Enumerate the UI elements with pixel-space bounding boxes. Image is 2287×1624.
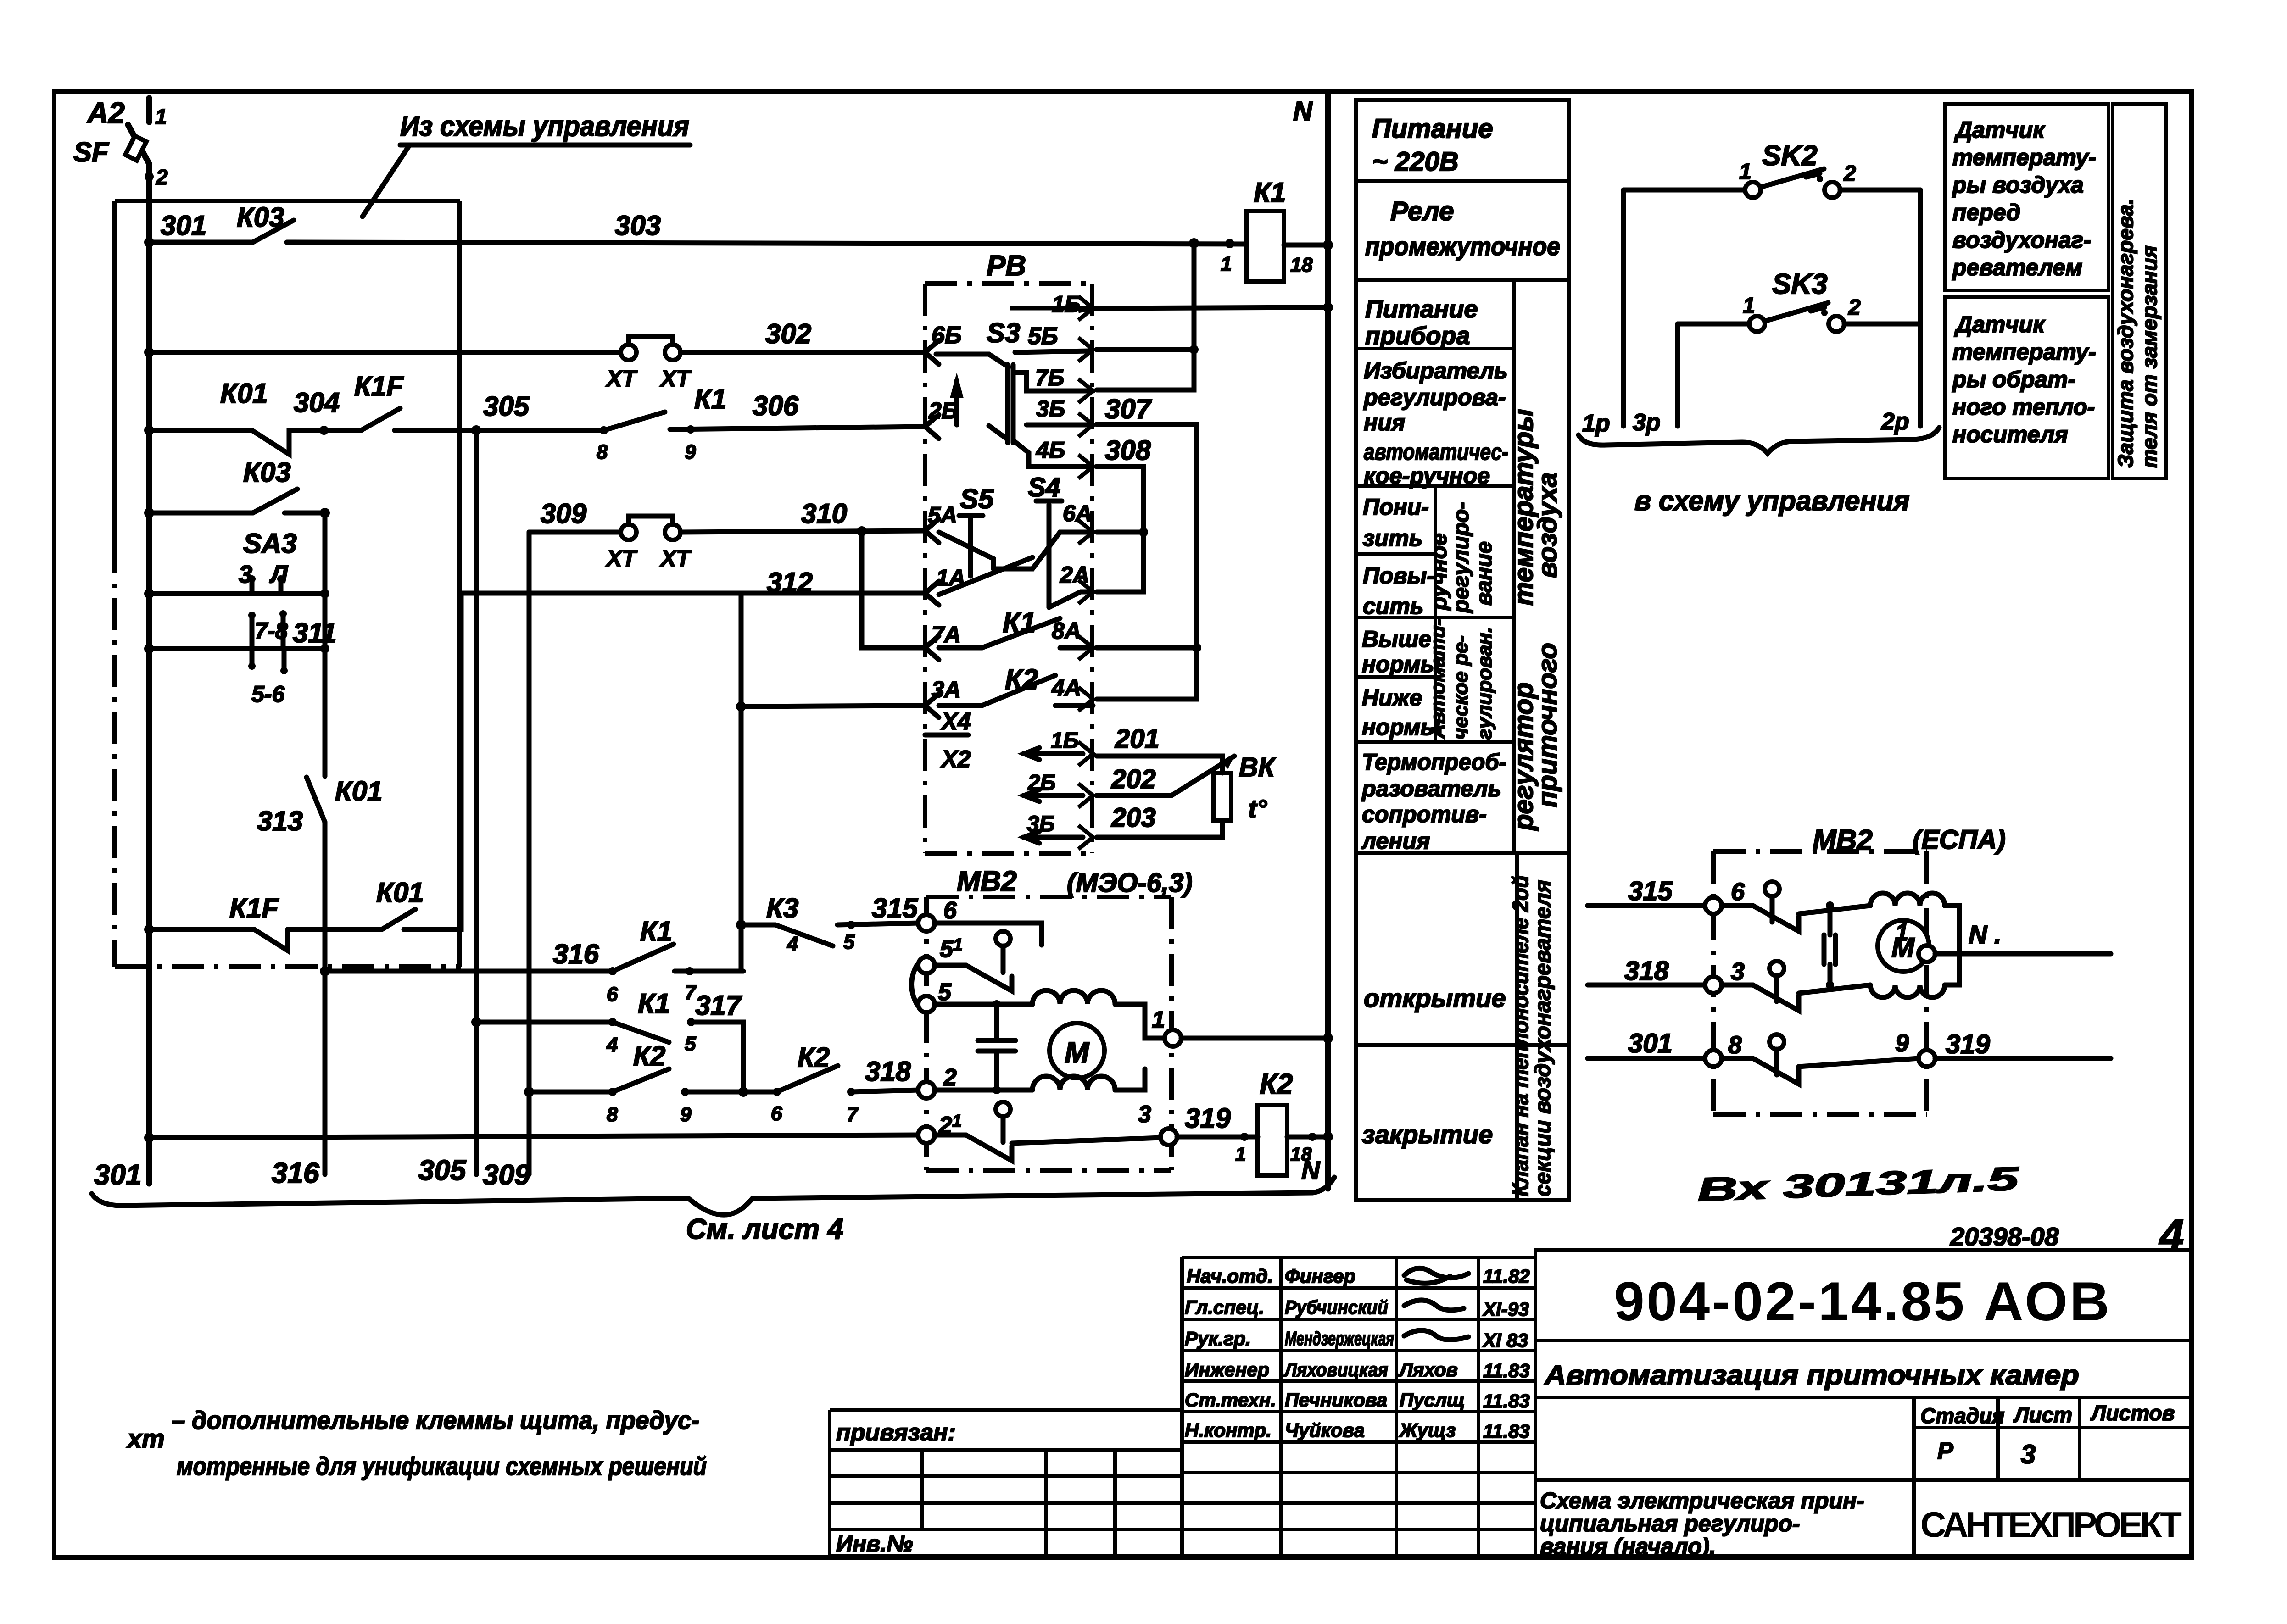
svg-text:2А: 2А [1060, 562, 1089, 588]
svg-text:1Б: 1Б [1051, 729, 1079, 753]
PB right edge pin arrows [1010, 296, 1093, 849]
svg-text:закрытие: закрытие [1362, 1120, 1493, 1149]
svg-text:Нач.отд.: Нач.отд. [1187, 1265, 1273, 1287]
svg-text:316: 316 [272, 1157, 319, 1189]
motor M (ЕСПА) [1878, 920, 1929, 972]
svg-text:3Б: 3Б [1036, 396, 1065, 422]
svg-text:вания (начало).: вания (начало). [1540, 1534, 1716, 1559]
svg-text:302: 302 [765, 318, 811, 349]
svg-text:Клапан на теплоносителе 2ой: Клапан на теплоносителе 2ой [1509, 875, 1533, 1196]
svg-text:К1F: К1F [229, 893, 279, 923]
svg-text:2: 2 [156, 165, 168, 189]
svg-text:2Б: 2Б [1027, 771, 1056, 795]
svg-text:1: 1 [1152, 1007, 1165, 1033]
svg-text:305: 305 [418, 1155, 467, 1186]
svg-text:XI 83: XI 83 [1482, 1329, 1528, 1351]
svg-text:310: 310 [801, 498, 847, 529]
svg-text:5: 5 [843, 931, 855, 953]
wire 302 with terminals XT-XT [144, 318, 925, 391]
svg-text:Лист: Лист [2013, 1403, 2072, 1427]
svg-text:3: 3 [2021, 1440, 2036, 1469]
svg-text:SA3: SA3 [243, 528, 297, 559]
svg-text:315: 315 [1628, 876, 1673, 906]
sensor description boxes (Датчик температуры...) [1945, 104, 2166, 478]
limit switch contact at 2' with plunger [996, 1102, 1010, 1117]
svg-text:8: 8 [1728, 1031, 1742, 1059]
svg-text:Датчик: Датчик [1954, 311, 2046, 337]
svg-text:312: 312 [767, 567, 813, 598]
svg-text:3: 3 [1731, 958, 1745, 985]
wire from terminal 6 [935, 923, 1042, 945]
svg-text:ры обрат-: ры обрат- [1952, 367, 2075, 392]
svg-text:304: 304 [294, 387, 340, 418]
svg-text:3Б: 3Б [1027, 812, 1055, 836]
svg-text:зить: зить [1363, 525, 1422, 551]
svg-text:Избиратель: Избиратель [1364, 358, 1508, 384]
svg-text:5Б: 5Б [1028, 323, 1058, 350]
svg-text:1р: 1р [1582, 410, 1610, 437]
svg-text:привязан:: привязан: [836, 1419, 956, 1446]
svg-text:приточного: приточного [1533, 643, 1562, 807]
selector switch SA3 (positions 3,Л; contacts 7-8, 5-6, node 311) [144, 528, 337, 707]
contact K03 row to rail 316 [144, 457, 330, 653]
svg-text:Выше: Выше [1362, 626, 1431, 652]
svg-text:ХТ: ХТ [659, 366, 692, 391]
svg-text:ХТ: ХТ [605, 545, 638, 571]
svg-text:1: 1 [1895, 919, 1908, 946]
connector X2 pins 1Б,2Б,3Б [1023, 754, 1083, 837]
svg-text:1: 1 [1739, 160, 1752, 184]
svg-text:311: 311 [293, 617, 337, 648]
svg-text:S3: S3 [987, 317, 1020, 348]
wires 307, 308 and links PB to K1 coil and N [1093, 243, 1333, 699]
svg-text:Схема электрическая прин-: Схема электрическая прин- [1540, 1488, 1864, 1513]
svg-text:К3: К3 [766, 893, 798, 923]
svg-text:303: 303 [615, 210, 661, 241]
svg-text:хт: хт [126, 1424, 165, 1453]
circuit breaker SF (panel A2) [73, 96, 168, 189]
svg-text:К01: К01 [220, 378, 268, 409]
svg-text:вание: вание [1472, 541, 1496, 606]
svg-text:К03: К03 [243, 457, 291, 488]
svg-text:1: 1 [1235, 1143, 1246, 1165]
svg-text:Датчик: Датчик [1954, 117, 2046, 143]
svg-text:7: 7 [847, 1103, 859, 1126]
svg-text:XI-93: XI-93 [1482, 1298, 1529, 1320]
svg-text:кое-ручное: кое-ручное [1364, 463, 1490, 489]
svg-text:Автоматизация приточных камер: Автоматизация приточных камер [1544, 1360, 2079, 1390]
contact K1F and contact K01 row [144, 593, 461, 951]
terminal 1 wire to N [1165, 1030, 1181, 1046]
svg-text:Пони-: Пони- [1363, 494, 1429, 520]
svg-text:мотренные для унификации схемн: мотренные для унификации схемных решений [177, 1452, 707, 1480]
svg-text:8: 8 [597, 441, 608, 463]
svg-text:6: 6 [771, 1102, 782, 1125]
svg-text:сить: сить [1363, 593, 1424, 619]
svg-text:202: 202 [1111, 764, 1156, 794]
wire rail 316 vertical [323, 822, 328, 1174]
svg-text:ципиальная регулиро-: ципиальная регулиро- [1540, 1511, 1800, 1536]
svg-text:309: 309 [483, 1159, 530, 1191]
svg-text:2р: 2р [1881, 408, 1909, 435]
svg-text:Листов: Листов [2090, 1401, 2175, 1425]
valve actuator MB2 (ЕСПА) box with wires 315,318,301,319,N [1588, 824, 2111, 1115]
svg-text:4А: 4А [1051, 675, 1081, 701]
svg-text:2: 2 [1843, 161, 1856, 186]
svg-text:(МЭО-6,3): (МЭО-6,3) [1067, 868, 1193, 898]
svg-text:ческое ре-: ческое ре- [1450, 635, 1472, 740]
motor winding lower coil [935, 1088, 1032, 1093]
svg-text:309: 309 [541, 498, 587, 529]
svg-text:К2: К2 [798, 1042, 830, 1073]
svg-text:К01: К01 [376, 877, 424, 908]
svg-text:Реле: Реле [1390, 196, 1454, 226]
terminal 1 wire N [1919, 945, 1935, 962]
wire bottom row 301 with rails 316,305,309 to sheet 4 [94, 1133, 919, 1191]
relay coil K2 rect [1258, 1105, 1287, 1175]
svg-text:воздуха: воздуха [1533, 473, 1562, 578]
svg-text:регулиро-: регулиро- [1449, 502, 1473, 614]
svg-text:S5: S5 [960, 484, 994, 514]
svg-text:11.82: 11.82 [1483, 1265, 1530, 1287]
svg-text:автоматичес-: автоматичес- [1364, 439, 1508, 465]
svg-text:18: 18 [1290, 254, 1313, 276]
svg-text:Гл.спец.: Гл.спец. [1185, 1296, 1264, 1318]
brace "в схему управления" [1579, 428, 1939, 453]
svg-text:ния: ния [1364, 410, 1405, 435]
svg-text:313: 313 [257, 806, 303, 836]
svg-text:К1: К1 [1254, 177, 1286, 208]
contact K2 (8-9), contact K2 (6-7), wire 318 [524, 1040, 919, 1126]
svg-text:2: 2 [943, 1064, 957, 1091]
svg-text:Мендзержецкая: Мендзержецкая [1285, 1328, 1394, 1349]
svg-text:301: 301 [1628, 1029, 1673, 1058]
svg-text:t°: t° [1248, 794, 1267, 823]
svg-text:Х2: Х2 [940, 746, 971, 773]
svg-text:3А: 3А [932, 677, 961, 702]
svg-text:11.83: 11.83 [1483, 1420, 1530, 1442]
svg-text:Чуйкова: Чуйкова [1285, 1419, 1365, 1441]
svg-text:SK2: SK2 [1762, 140, 1818, 172]
svg-text:Р: Р [1937, 1438, 1953, 1464]
limit switch contact at 5' with plunger [996, 931, 1010, 946]
svg-text:См. лист 4: См. лист 4 [686, 1213, 843, 1245]
svg-text:Печникова: Печникова [1285, 1389, 1387, 1411]
svg-text:Автомати-: Автомати- [1427, 619, 1449, 739]
svg-text:5А: 5А [928, 502, 957, 528]
svg-text:перед: перед [1952, 200, 2020, 225]
svg-text:теля от замерзания: теля от замерзания [2137, 245, 2161, 468]
svg-text:315: 315 [872, 893, 919, 923]
panel boundary box (dash-dot) [115, 201, 460, 967]
svg-text:Инв.№: Инв.№ [836, 1531, 913, 1557]
svg-text:МВ2: МВ2 [957, 866, 1017, 897]
title block "привязан:" / "Инв.№" table [830, 1410, 1182, 1556]
svg-text:К1: К1 [638, 988, 670, 1019]
svg-text:1: 1 [1221, 253, 1232, 275]
resistance thermometer BK body [1214, 773, 1231, 821]
svg-text:Инженер: Инженер [1185, 1359, 1269, 1380]
wire 312 [461, 567, 925, 971]
svg-text:Из схемы управления: Из схемы управления [400, 111, 689, 142]
svg-text:Н.контр.: Н.контр. [1185, 1419, 1272, 1441]
svg-text:4: 4 [787, 933, 798, 955]
svg-text:К1F: К1F [354, 371, 404, 401]
svg-text:3р: 3р [1633, 409, 1661, 436]
title block main field 904-02-14.85 АОВ [1535, 1250, 2192, 1556]
svg-text:температу-: температу- [1952, 145, 2096, 170]
svg-text:К01: К01 [335, 776, 383, 806]
relay coil K1 (pins 1,18) [1189, 177, 1333, 282]
time relay unit PB (РВ) dash-dot box [925, 250, 1093, 853]
svg-text:Ляховицкая: Ляховицкая [1283, 1359, 1388, 1380]
svg-text:8: 8 [607, 1103, 618, 1126]
wire rail 305 vertical [474, 430, 479, 1174]
svg-text:S4: S4 [1028, 473, 1060, 502]
svg-text:– дополнительные клеммы щита,: – дополнительные клеммы щита, предус- [172, 1406, 699, 1435]
title block signature table [1182, 1257, 1535, 1556]
capacitor C (MЭО) [994, 1004, 999, 1090]
svg-text:К1: К1 [640, 916, 672, 946]
svg-text:ХТ: ХТ [605, 366, 638, 391]
svg-text:317: 317 [695, 990, 742, 1021]
contact K01, node 304, contact K1F, node 305, contact K1 (8-9), wire 306 [144, 371, 925, 463]
svg-text:4Б: 4Б [1036, 437, 1065, 463]
svg-text:Рук.гр.: Рук.гр. [1185, 1328, 1251, 1349]
svg-text:318: 318 [865, 1056, 911, 1087]
svg-text:307: 307 [1105, 394, 1152, 424]
svg-text:~ 220В: ~ 220В [1372, 147, 1459, 177]
svg-text:САНТЕХПРОЕКТ: САНТЕХПРОЕКТ [1920, 1504, 2182, 1545]
svg-text:Пуслщ: Пуслщ [1400, 1389, 1465, 1411]
svg-text:Ляхов: Ляхов [1398, 1359, 1458, 1380]
svg-text:разователь: разователь [1361, 776, 1501, 801]
svg-text:воздухонаг-: воздухонаг- [1952, 227, 2091, 253]
svg-text:N .: N . [1969, 920, 2002, 949]
svg-text:11.83: 11.83 [1483, 1360, 1530, 1381]
svg-text:6: 6 [1731, 878, 1745, 906]
svg-text:9: 9 [685, 441, 696, 463]
svg-text:904-02-14.85 АОВ: 904-02-14.85 АОВ [1614, 1271, 2109, 1332]
svg-text:ручное: ручное [1427, 533, 1451, 611]
svg-text:11.83: 11.83 [1483, 1390, 1530, 1412]
actuator MB2 (МЭО-6,3) dash-dot box [912, 866, 1333, 1185]
svg-text:Жущз: Жущз [1399, 1419, 1456, 1441]
svg-text:ного тепло-: ного тепло- [1952, 394, 2095, 420]
terminal 3, wire 319, relay coil K2 (pins 1,18) [1160, 1129, 1177, 1145]
svg-text:ХТ: ХТ [659, 545, 692, 571]
svg-text:открытие: открытие [1364, 984, 1506, 1012]
wire 301 / contact K03 / wire 303 [144, 202, 1246, 247]
svg-text:9: 9 [680, 1103, 692, 1126]
wires 201,202,203 to resistance thermometer BK [1097, 724, 1276, 837]
wire 316, contact K1 (6-7) [320, 916, 743, 1006]
svg-text:регулирова-: регулирова- [1363, 384, 1506, 410]
contact K1 (4-5), wire 317 [471, 988, 743, 1092]
svg-text:ры воздуха: ры воздуха [1952, 172, 2084, 198]
svg-text:1: 1 [155, 105, 167, 128]
svg-text:К2: К2 [633, 1040, 665, 1071]
svg-text:4: 4 [2159, 1211, 2184, 1260]
svg-text:7-8: 7-8 [255, 618, 288, 644]
svg-text:Защита воздухонагрева.: Защита воздухонагрева. [2114, 199, 2137, 468]
svg-text:9: 9 [1895, 1029, 1909, 1057]
svg-text:20398-08: 20398-08 [1950, 1222, 2059, 1251]
svg-text:7Б: 7Б [1035, 365, 1064, 390]
svg-text:Ниже: Ниже [1362, 685, 1422, 711]
svg-text:1: 1 [1743, 294, 1755, 318]
svg-text:319: 319 [1185, 1103, 1231, 1134]
svg-text:Повы-: Повы- [1363, 563, 1434, 589]
svg-text:306: 306 [753, 390, 799, 421]
svg-text:носителя: носителя [1952, 422, 2068, 447]
svg-text:ВК: ВК [1239, 752, 1276, 782]
svg-text:М: М [1065, 1036, 1090, 1069]
svg-text:секции воздухонагревателя: секции воздухонагревателя [1531, 880, 1555, 1196]
svg-text:температу-: температу- [1952, 339, 2096, 365]
svg-text:РВ: РВ [987, 250, 1026, 282]
svg-text:К2: К2 [1260, 1068, 1293, 1100]
svg-text:промежуточное: промежуточное [1365, 232, 1560, 261]
svg-text:ревателем: ревателем [1952, 255, 2082, 280]
svg-text:Х4: Х4 [940, 708, 971, 735]
contact K01 on rail 313 [257, 513, 383, 844]
title block [830, 1211, 2192, 1559]
svg-text:сопротив-: сопротив- [1362, 801, 1487, 827]
svg-text:ления: ления [1361, 828, 1430, 854]
wire phase bus from SF [146, 164, 152, 1184]
svg-text:308: 308 [1105, 435, 1151, 466]
svg-text:6Б: 6Б [932, 322, 962, 349]
svg-text:5-6: 5-6 [251, 681, 285, 707]
svg-text:2: 2 [1848, 295, 1861, 320]
svg-text:SF: SF [73, 137, 109, 167]
function table column [1356, 100, 1569, 1200]
note "См. лист 4" with brace line [92, 1177, 1334, 1245]
svg-text:3: 3 [1138, 1101, 1151, 1128]
svg-text:А2: А2 [86, 96, 125, 129]
svg-text:SK3: SK3 [1772, 268, 1828, 300]
svg-text:Питание: Питание [1372, 114, 1493, 144]
capacitor C (ЕСПА) [1828, 906, 1833, 985]
svg-text:К1: К1 [694, 384, 726, 414]
svg-text:6А: 6А [1063, 501, 1092, 526]
svg-text:203: 203 [1111, 803, 1156, 833]
svg-text:1Б: 1Б [1052, 291, 1081, 317]
svg-text:7А: 7А [932, 622, 961, 647]
MB2 terminals 6,5',5,2,2' [918, 915, 935, 931]
svg-text:201: 201 [1115, 724, 1160, 754]
svg-text:6: 6 [607, 983, 618, 1006]
svg-text:301: 301 [94, 1159, 141, 1191]
motor winding upper coil [935, 1002, 1032, 1007]
svg-text:318: 318 [1624, 956, 1669, 986]
svg-text:301: 301 [161, 210, 206, 241]
svg-text:Стадия: Стадия [1920, 1404, 2004, 1428]
svg-text:в схему управления: в схему управления [1634, 485, 1910, 516]
wire to X4 pin 3A [736, 701, 746, 712]
svg-text:гулирован.: гулирован. [1473, 627, 1496, 740]
svg-text:Питание: Питание [1365, 295, 1478, 323]
svg-text:4: 4 [606, 1034, 618, 1056]
thermal switches SK2 and SK3 (1р,3р,2р to control circuit) [1579, 140, 1939, 516]
svg-text:6: 6 [943, 897, 957, 924]
svg-text:2Б: 2Б [928, 398, 958, 423]
svg-text:316: 316 [553, 939, 599, 969]
svg-text:Термопреоб-: Термопреоб- [1362, 749, 1506, 775]
svg-text:Рубчинский: Рубчинский [1285, 1296, 1388, 1318]
wire 309 / terminals XT-XT / wire 310 with branch to 7A [529, 498, 925, 1174]
svg-text:Ст.техн.: Ст.техн. [1185, 1389, 1276, 1411]
svg-text:N: N [1301, 1156, 1321, 1185]
svg-text:5: 5 [938, 979, 952, 1006]
motor M (МЭО) [1049, 1023, 1104, 1078]
svg-text:Фингер: Фингер [1285, 1265, 1355, 1287]
svg-text:305: 305 [483, 391, 530, 422]
PB left edge pin arrows [925, 340, 939, 717]
svg-text:5: 5 [685, 1033, 696, 1055]
contact K3 (4-5), wire 315 [736, 893, 919, 955]
wire N neutral bus [1325, 95, 1331, 1189]
svg-text:прибора: прибора [1365, 322, 1470, 350]
svg-text:N: N [1293, 96, 1313, 126]
svg-text:319: 319 [1946, 1029, 1990, 1059]
